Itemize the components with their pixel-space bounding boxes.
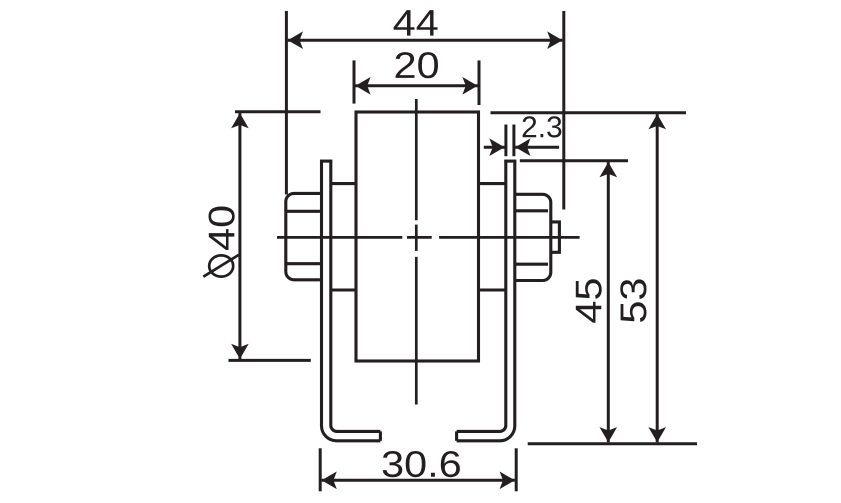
arrow 20 left (355, 77, 370, 95)
hub line top-left (330, 182, 356, 185)
hub line bottom-left (330, 288, 356, 291)
label 2.3 (523, 116, 562, 137)
dim 30.6 tick right (515, 448, 518, 491)
arrow 53 top (648, 114, 666, 129)
dim 20 extension line right (478, 60, 481, 105)
dim 53 dimension line (656, 114, 659, 442)
bracket right foot end cap (455, 431, 458, 440)
bracket left leg top cap (320, 160, 332, 163)
dim 44 dimension line (288, 39, 563, 42)
dim 30.6 dimension line (322, 479, 515, 482)
phi symbol slash (203, 255, 238, 277)
horizontal centerline (277, 236, 402, 239)
hub line top-right (479, 182, 506, 185)
arrow 44 right (547, 31, 562, 49)
hex nut right chamfer line lower (515, 263, 548, 266)
dim 53 top reference line (491, 111, 687, 114)
arrow 30.6 right (500, 472, 515, 490)
arrow 2.3 left (489, 138, 504, 156)
/TEXTS (203, 255, 238, 277)
dim 2.3 right arrow shaft (515, 146, 559, 149)
dim phi40 top reference line (235, 110, 321, 113)
dim 45 dimension line (607, 162, 610, 442)
dim 30.6 tick left (319, 448, 322, 491)
dim 45 53 bottom reference line (528, 442, 697, 445)
arrow 45 bottom (600, 427, 618, 442)
bracket left leg outer (322, 160, 381, 441)
label 44 (394, 10, 438, 35)
dim phi40 bottom reference line (229, 359, 311, 362)
label 45 (576, 279, 602, 322)
arrow 20 right (462, 77, 477, 95)
bracket right leg top cap (504, 160, 516, 163)
arrow phi40 top (231, 113, 249, 128)
dim 2.3 tick right (512, 125, 515, 157)
hex nut right chamfer line upper (515, 209, 548, 212)
bracket left leg inner (331, 160, 381, 432)
arrow 45 top (600, 162, 618, 177)
bracket right leg inner (457, 160, 506, 432)
hex nut left outline (286, 193, 322, 279)
arrow phi40 bottom (231, 344, 249, 359)
dim 45 top reference line (520, 159, 628, 162)
hex nut left chamfer line upper (286, 210, 322, 213)
hub line bottom-right (479, 288, 506, 291)
roller body (356, 112, 479, 361)
label 40 of phi40 (209, 207, 235, 251)
arrow 2.3 right (515, 138, 530, 156)
hex nut right outline (515, 194, 551, 280)
phi symbol circle (209, 255, 233, 276)
vertical centerline (415, 99, 418, 220)
bracket left foot end cap (379, 431, 382, 440)
hex nut left chamfer line lower (286, 262, 322, 265)
label 53 (620, 279, 646, 322)
shaft stub (551, 222, 560, 252)
dim 20 extension line left (353, 60, 356, 103)
arrow 30.6 left (322, 472, 337, 490)
bracket right leg outer (457, 160, 515, 441)
dim 20 dimension line (355, 84, 477, 87)
arrow 53 bottom (648, 427, 666, 442)
label 30.6 (383, 451, 460, 477)
dim 44 extension line right (562, 11, 565, 210)
dim 2.3 tick left (504, 125, 507, 157)
arrow 44 left (288, 31, 303, 49)
label 20 (396, 52, 438, 78)
dim phi40 dimension line (238, 113, 241, 359)
dim 2.3 left arrow shaft (484, 146, 505, 149)
dim 44 extension line left (285, 11, 288, 195)
